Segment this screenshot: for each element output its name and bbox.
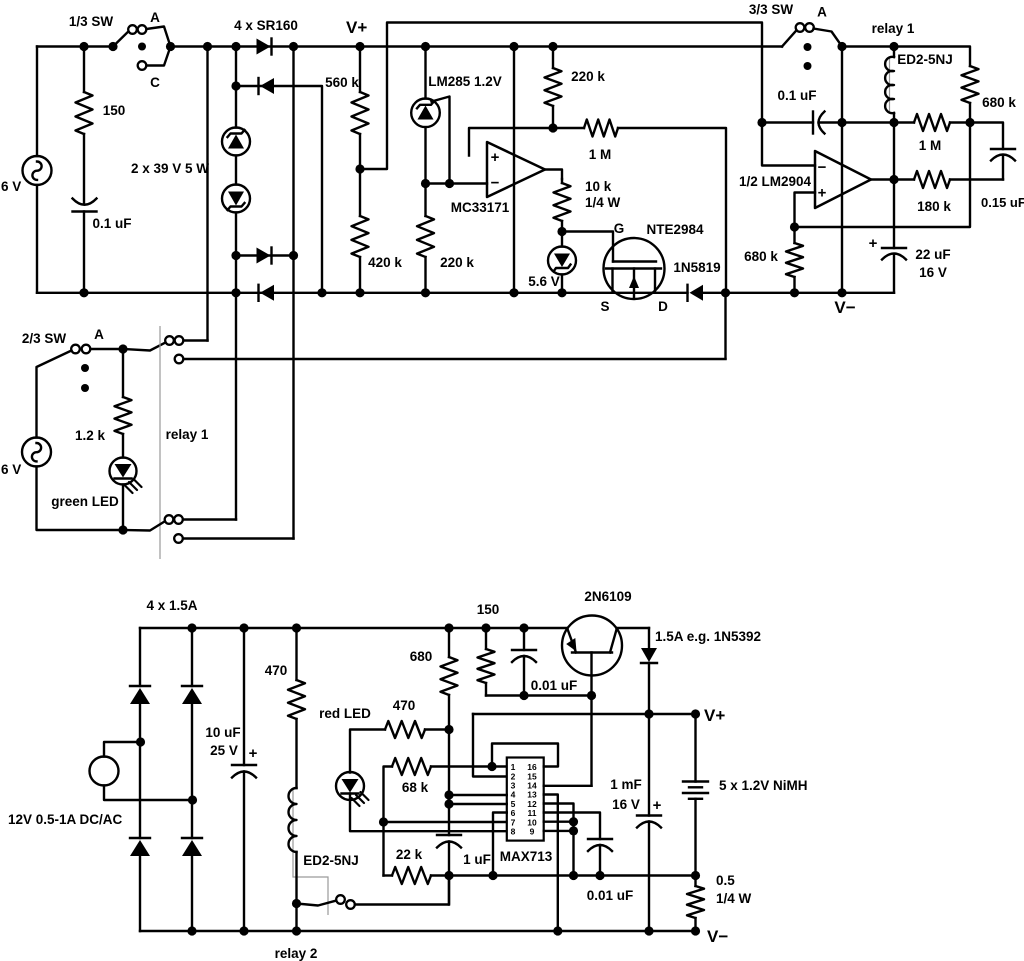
resistor 1.2k (122, 349, 124, 397)
wire relay1 NC upper to 1N5819 node (184, 358, 726, 360)
wire 1M row (553, 127, 584, 129)
wire LM285 wraparound to minus node (432, 97, 450, 184)
wire pin2 drop (473, 714, 507, 777)
svg-text:1.2 k: 1.2 k (75, 428, 106, 443)
svg-text:+: + (869, 235, 878, 252)
node x514 bottom (509, 288, 518, 297)
wire pin1-pin16 bracket (492, 744, 558, 767)
node gate junction (557, 227, 566, 236)
wire row2 (236, 86, 322, 293)
resistor 0.5 1/4W (694, 876, 696, 887)
wire lower bottom rail (140, 930, 696, 932)
switch 1/3 SW contact C wire (147, 47, 171, 66)
wire x894 vertical (893, 123, 895, 249)
svg-text:1 mF: 1 mF (610, 777, 642, 792)
svg-text:+: + (491, 149, 500, 166)
svg-text:0.5: 0.5 (716, 873, 735, 888)
svg-text:2/3 SW: 2/3 SW (22, 331, 67, 346)
svg-text:relay 1: relay 1 (872, 21, 915, 36)
wire pin9 lead (544, 830, 574, 832)
svg-text:16 V: 16 V (612, 797, 640, 812)
svg-text:220 k: 220 k (440, 255, 474, 270)
svg-text:relay 1: relay 1 (166, 427, 209, 442)
AC source 6V (lower) (22, 438, 51, 467)
node LED bottom (118, 525, 127, 534)
node 220k-left bottom (421, 288, 430, 297)
switch 2/3 SW dots (81, 364, 89, 372)
resistor 470 (horizontal) (385, 721, 425, 738)
wire top rail to relay1 coil (842, 47, 970, 67)
node pin10 junction (569, 817, 578, 826)
switch 3/3 SW blade (782, 31, 796, 47)
switch 3/3 SW contact A wire (814, 29, 843, 47)
svg-text:680 k: 680 k (982, 95, 1016, 110)
resistor 560k (359, 47, 361, 93)
diode 1N5819 (686, 285, 688, 301)
inductor relay2 coil ED2-5NJ (289, 788, 297, 852)
capacitor 0.01uF (upper) (523, 628, 525, 650)
svg-text:4 x 1.5A: 4 x 1.5A (146, 598, 197, 613)
node AC input top (136, 737, 145, 746)
wire plus input net (795, 123, 971, 228)
svg-text:150: 150 (477, 602, 500, 617)
wire LM285 top lead (424, 47, 426, 99)
wire base row (486, 694, 592, 696)
switch 2/3 SW blade (37, 351, 72, 438)
node LM285 top (421, 42, 430, 51)
svg-text:1/4 W: 1/4 W (585, 195, 621, 210)
wire MC33171 output (545, 170, 562, 180)
wire pin13 net (544, 795, 558, 932)
node 0.1uF left (757, 118, 766, 127)
wire left vertical from 6V source (36, 47, 38, 157)
node 1M right / 680k bottom (965, 118, 974, 127)
svg-text:−: − (818, 159, 827, 176)
relay1 contact pair upper (165, 336, 174, 345)
node 3/3 SW output (837, 42, 846, 51)
svg-text:V−: V− (834, 298, 855, 317)
node zener column row3 (231, 251, 240, 260)
svg-text:680: 680 (410, 649, 433, 664)
node 0.01uF-2 bottom (595, 871, 604, 880)
svg-text:5.6 V: 5.6 V (528, 274, 560, 289)
node 0.01uF-1 bottom (519, 691, 528, 700)
wire bridge right column (191, 628, 193, 686)
svg-text:10 k: 10 k (585, 179, 612, 194)
node 1mF bottom (644, 926, 653, 935)
switch relay2 contact circles (336, 895, 345, 904)
svg-text:1 M: 1 M (919, 138, 942, 153)
switch 2/3 SW contact circles (71, 345, 80, 354)
node relay2 column bottom (292, 926, 301, 935)
node AC input bottom (188, 795, 197, 804)
node 560k top (355, 42, 364, 51)
node output x894 (889, 175, 898, 184)
svg-text:A: A (817, 5, 827, 20)
wire relay1 blade lower (123, 522, 165, 531)
resistor 1M (right) (914, 114, 950, 131)
node row2 bottom (317, 288, 326, 297)
node pin9 junction (569, 826, 578, 835)
wire relay2 contact to x449 (355, 876, 449, 905)
wire relay1 NO lower (183, 518, 236, 520)
wire zener column upper (235, 47, 237, 128)
switch relay2 blade (297, 901, 337, 906)
wire x207 vertical to relay1 contact (206, 47, 208, 341)
resistor 680k right (962, 66, 979, 103)
wire red LED bottom to pin8 (350, 794, 507, 832)
svg-text:−: − (491, 175, 500, 192)
wire pin5 lead (449, 803, 507, 805)
svg-text:D: D (658, 299, 668, 314)
battery 5x1.2V NiMH (683, 780, 708, 782)
node 10uF bottom (239, 926, 248, 935)
wire LM2904 minus input (762, 123, 815, 166)
resistor 150 (upper) (83, 47, 85, 93)
wire pin10 lead (544, 821, 574, 823)
wire LM2904 output (871, 178, 914, 180)
wire LM2904 plus input (795, 193, 816, 228)
resistor 1M (feedback) (584, 120, 618, 137)
node pin12 bottom rail (569, 871, 578, 880)
svg-text:560 k: 560 k (325, 75, 359, 90)
node 0.1uF bottom (79, 288, 88, 297)
wire pin11 net (544, 813, 600, 840)
node wraparound bottom (445, 179, 454, 188)
wire divider tap to 3/3 SW feed (360, 23, 762, 170)
node pin4 tap (444, 790, 453, 799)
node top rail x207 (203, 42, 212, 51)
switch 1/3 SW contact C circle (138, 61, 147, 70)
diode bridge top-left (130, 685, 150, 687)
relay1 contact NC upper (175, 355, 184, 364)
capacitor 1uF (437, 834, 461, 836)
zener 5.6V circle (548, 247, 576, 275)
node V+ x649 (644, 709, 653, 718)
svg-text:1.5A e.g. 1N5392: 1.5A e.g. 1N5392 (655, 629, 761, 644)
svg-text:ED2-5NJ: ED2-5NJ (303, 853, 359, 868)
switch 1/3 SW contact A wire (147, 27, 171, 47)
svg-text:8: 8 (511, 827, 516, 837)
node x842 bottom (837, 288, 846, 297)
svg-text:2N6109: 2N6109 (584, 589, 631, 604)
wire relay1 blade upper (123, 343, 166, 351)
relay2 boundary line (293, 788, 328, 915)
svg-text:1 uF: 1 uF (463, 852, 491, 867)
node x514 top (509, 42, 518, 51)
wire 1M2 row (894, 121, 914, 123)
node pin6 bottom rail (488, 871, 497, 880)
capacitor 22uF (882, 247, 906, 249)
node LM285 bottom (421, 179, 430, 188)
svg-text:A: A (150, 10, 160, 25)
node 10uF top (239, 623, 248, 632)
node 420k bottom (355, 288, 364, 297)
diode SR160 row1 (257, 39, 271, 55)
IC MAX713 body (507, 758, 544, 841)
wire LM285 bottom lead (424, 127, 426, 183)
capacitor 0.01uF (lower) (588, 838, 612, 840)
transistor 2N6109 (562, 616, 622, 676)
wire V+ top rail (37, 45, 113, 47)
diode bridge bottom-right (182, 837, 202, 839)
node pin1 junction (487, 762, 496, 771)
svg-text:LM285 1.2V: LM285 1.2V (428, 74, 502, 89)
svg-text:V+: V+ (346, 18, 367, 37)
wire lower loop bottom (37, 467, 124, 531)
inductor relay1 coil ED2-5NJ (893, 47, 895, 58)
node battery top V+ (691, 709, 700, 718)
switch 1/3 SW blade (113, 32, 128, 47)
wire red LED top (350, 730, 385, 773)
node 680 top (444, 623, 453, 632)
wire gate lead (562, 232, 613, 262)
svg-text:22 uF: 22 uF (915, 247, 950, 262)
zener LM285 circle (411, 99, 440, 128)
svg-text:5 x 1.2V NiMH: 5 x 1.2V NiMH (719, 778, 808, 793)
svg-text:16 V: 16 V (919, 265, 947, 280)
wire pin14 lead (544, 785, 592, 787)
resistor 22k (392, 867, 431, 884)
svg-text:9: 9 (530, 827, 535, 837)
svg-text:12V 0.5-1A DC/AC: 12V 0.5-1A DC/AC (8, 812, 123, 827)
svg-text:22 k: 22 k (396, 847, 423, 862)
wire zener 5.6V top lead (561, 232, 563, 247)
diode bridge bottom-left (130, 837, 150, 839)
resistor 150 (lower) (485, 628, 487, 649)
svg-text:+: + (818, 185, 827, 202)
switch 3/3 SW contact circles (796, 23, 805, 32)
svg-text:0.1 uF: 0.1 uF (777, 88, 816, 103)
node plus input junction (790, 222, 799, 231)
svg-text:A: A (94, 327, 104, 342)
op-amp MC33171 (487, 142, 545, 197)
wire relay1 NC lower (183, 537, 294, 539)
svg-text:3/3 SW: 3/3 SW (749, 2, 794, 17)
node 470h right (444, 725, 453, 734)
AC source 6V (upper) (23, 156, 52, 185)
wire x293 vertical (292, 47, 294, 539)
node 150 top (79, 42, 88, 51)
node relay2 pivot (292, 899, 301, 908)
svg-text:6 V: 6 V (1, 179, 21, 194)
svg-text:0.01 uF: 0.01 uF (531, 678, 578, 693)
node 5.6V bottom (557, 288, 566, 297)
node zener column top (231, 42, 240, 51)
svg-text:V−: V− (707, 927, 728, 946)
wire V+ row (473, 714, 696, 782)
capacitor 0.1uF (upper left) (73, 199, 97, 205)
resistor 68k (384, 767, 393, 876)
switch 3/3 SW dots (804, 43, 812, 51)
wire MC33171 feedback (469, 128, 553, 156)
resistor 680 (448, 628, 450, 657)
wire bridge left column (139, 628, 141, 686)
relay1 contact pair lower (165, 515, 174, 524)
capacitor 0.1uF (switch) (762, 121, 813, 123)
svg-text:0.1 uF: 0.1 uF (92, 216, 131, 231)
node x842 cap row (837, 118, 846, 127)
wire bottom V- rail left of 1N5819 (37, 292, 688, 294)
node 0.01uF-1 top (519, 623, 528, 632)
wire pin6 net (493, 813, 507, 876)
diode SR160 row4 (257, 285, 259, 301)
diode bridge top-right (182, 685, 202, 687)
resistor 220k left (424, 184, 426, 217)
wire lower top rail (140, 627, 568, 629)
svg-text:+: + (653, 797, 662, 814)
svg-text:1/4 W: 1/4 W (716, 891, 752, 906)
svg-text:+: + (249, 745, 258, 762)
node divider tap (355, 164, 364, 173)
switch 1/3 SW middle dot (138, 43, 146, 51)
node zener column bottom rail (231, 288, 240, 297)
svg-text:10 uF: 10 uF (205, 725, 240, 740)
diode SR160 row3 (257, 248, 271, 264)
wire x842 vertical (841, 47, 843, 293)
wire row3 (236, 254, 294, 256)
svg-text:180 k: 180 k (917, 199, 951, 214)
svg-text:ED2-5NJ: ED2-5NJ (897, 52, 953, 67)
svg-text:red LED: red LED (319, 706, 371, 721)
svg-text:220 k: 220 k (571, 69, 605, 84)
node battery bottom (691, 871, 700, 880)
node A-side of 1/3 SW (166, 42, 175, 51)
svg-text:2 x 39 V 5 W: 2 x 39 V 5 W (131, 161, 209, 176)
node 1uF bottom rail (444, 871, 453, 880)
AC source 12V (90, 757, 119, 786)
node 68k/22k tap (379, 817, 388, 826)
resistor 10k (561, 179, 563, 183)
diode 1N5392 (648, 628, 650, 648)
node 220k-top upper (548, 42, 557, 51)
wire x725 vertical to relay NC (724, 293, 726, 359)
svg-text:NTE2984: NTE2984 (646, 222, 704, 237)
svg-text:green LED: green LED (51, 494, 119, 509)
node base junction (587, 691, 596, 700)
LED green (110, 458, 137, 485)
svg-text:470: 470 (393, 698, 416, 713)
node 0.5 bottom (691, 926, 700, 935)
node 1N5819 right (721, 288, 730, 297)
svg-text:MC33171: MC33171 (451, 200, 510, 215)
wire 2/3 SW to 1.2k (90, 348, 123, 350)
node 220k bottom / 1M left (548, 123, 557, 132)
zener diode 39V upper circle (222, 128, 250, 156)
zener diode 39V lower circle (222, 185, 250, 213)
svg-text:C: C (150, 75, 160, 90)
wire x514 vertical (513, 47, 515, 293)
svg-text:1/2 LM2904: 1/2 LM2904 (739, 174, 812, 189)
svg-text:S: S (600, 299, 609, 314)
node 1.2k top (118, 344, 127, 353)
wire pin7 net (384, 821, 507, 823)
relay1 contact NC lower (174, 534, 183, 543)
svg-text:25 V: 25 V (210, 743, 238, 758)
node pin13 bottom (553, 926, 562, 935)
svg-text:680 k: 680 k (744, 249, 778, 264)
svg-text:68 k: 68 k (402, 780, 429, 795)
resistor 420k (359, 169, 361, 216)
svg-text:MAX713: MAX713 (500, 849, 553, 864)
svg-text:4 x SR160: 4 x SR160 (234, 18, 298, 33)
svg-text:470: 470 (265, 663, 288, 678)
resistor 180k (914, 171, 950, 188)
node 680k-left bottom (790, 288, 799, 297)
diode SR160 row2 (257, 78, 259, 94)
svg-text:relay 2: relay 2 (275, 946, 318, 961)
node pin5 tap (444, 799, 453, 808)
relay1 boundary line (159, 326, 161, 559)
transistor NTE2984 MOSFET (604, 238, 665, 299)
capacitor 0.15uF (991, 148, 1015, 150)
wire bottom V- rail right of 1N5819 (703, 292, 894, 294)
wire MC33171 minus input (426, 182, 488, 184)
node zener column row2 (231, 81, 240, 90)
switch 1/3 SW contact circles (128, 25, 137, 34)
node bridge right bottom (187, 926, 196, 935)
node 470 top (292, 623, 301, 632)
svg-text:1 M: 1 M (589, 147, 612, 162)
wire lower mid rail (384, 874, 393, 876)
node 150 top (lower) (481, 623, 490, 632)
capacitor 1mF (637, 814, 661, 816)
switch 1/3 SW pivot node (108, 42, 117, 51)
resistor 220k top (552, 47, 554, 69)
svg-text:1/3 SW: 1/3 SW (69, 14, 114, 29)
node bridge left top (187, 623, 196, 632)
resistor 470 (vertical) (295, 628, 297, 680)
node row1 right (289, 42, 298, 51)
LED red (336, 772, 364, 800)
svg-text:6 V: 6 V (1, 462, 21, 477)
svg-text:0.01 uF: 0.01 uF (587, 888, 634, 903)
wire zener 5.6V bottom lead (561, 275, 563, 293)
svg-text:420 k: 420 k (368, 255, 402, 270)
node row3 right (289, 251, 298, 260)
resistor 680k left (793, 227, 795, 243)
wire relay1 NO upper (184, 339, 208, 341)
relay1 coil thin core line (889, 57, 891, 113)
svg-text:V+: V+ (704, 706, 725, 725)
wire pin4 lead (449, 794, 507, 796)
svg-text:150: 150 (103, 103, 126, 118)
wire pin12 net (544, 804, 574, 876)
svg-text:G: G (614, 221, 625, 236)
op-amp LM2904 (815, 151, 871, 208)
wire between zeners (235, 156, 237, 185)
wire 0.15uF top lead (970, 123, 1003, 150)
node relay1 coil bottom (889, 118, 898, 127)
wire zener column lower to relay1 (235, 213, 237, 520)
svg-text:1N5819: 1N5819 (673, 260, 720, 275)
capacitor 10uF 25V (243, 628, 245, 765)
svg-text:0.15 uF: 0.15 uF (981, 195, 1024, 210)
node relay1 coil top (889, 42, 898, 51)
